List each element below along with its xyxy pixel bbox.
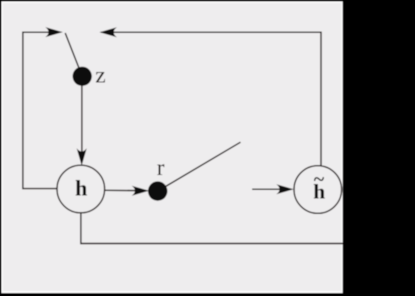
arrowhead from return wire (left) <box>99 27 117 37</box>
arrowhead into r (right) <box>132 186 150 196</box>
arrowhead into z switch (right) <box>45 27 63 37</box>
svg-text:z: z <box>95 63 105 89</box>
arrowhead into h (down) <box>77 148 87 166</box>
wire switch lever at z <box>65 33 82 76</box>
svg-text:~: ~ <box>314 169 325 191</box>
wire h output bottom <box>81 213 343 244</box>
wire z to h <box>81 82 83 158</box>
black band covering right side <box>343 0 415 296</box>
wire switch lever at r <box>158 142 241 191</box>
node z (update gate dot) <box>73 67 92 86</box>
svg-text:r: r <box>157 155 165 180</box>
node h (hidden state) <box>57 165 105 213</box>
node h-tilde (candidate activation) <box>294 166 342 214</box>
wire input to h-tilde <box>252 188 290 190</box>
wire h to r <box>105 189 146 191</box>
node r (reset gate dot) <box>148 181 167 200</box>
wire left feedback loop (h back to z switch) <box>23 32 59 188</box>
svg-text:h: h <box>75 175 87 200</box>
bottom black edge <box>0 293 415 296</box>
wire return from h-tilde to z switch (top) <box>101 32 321 166</box>
figure grey background <box>3 3 341 291</box>
arrowhead into h-tilde (right) <box>276 184 294 194</box>
